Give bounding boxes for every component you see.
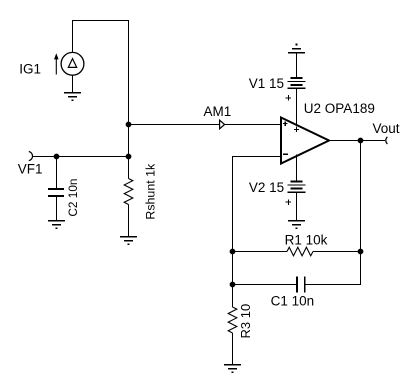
op-amp U2 V+ pin marker: [294, 127, 299, 132]
capacitor C2: [48, 189, 64, 196]
wire op-amp output: [329, 140, 385, 142]
svg-text:Vout: Vout: [373, 121, 400, 136]
wire feedback left vertical: [232, 156, 234, 307]
ground below C2: [48, 221, 65, 230]
terminal VF1: [29, 152, 33, 161]
wire main vertical x=128 from top wire down to Rshunt: [128, 20, 130, 179]
wire C2 bottom lead: [56, 197, 58, 221]
node junction VF1/C2: [54, 154, 60, 160]
wire V1 to op-amp V+ pin: [296, 88, 298, 126]
wire IG1 bottom lead to ground: [72, 75, 74, 92]
op-amp U2 - input marker: [283, 153, 288, 155]
op-amp U2 triangle: [281, 118, 329, 164]
ground below R3: [224, 365, 241, 374]
wire Rshunt bottom lead: [128, 205, 130, 237]
wire AM1 from main vertical to op-amp + input: [129, 124, 282, 126]
wire R1 left lead: [233, 251, 288, 253]
svg-text:C2 10n: C2 10n: [66, 179, 80, 217]
svg-text:R3 10: R3 10: [238, 304, 253, 339]
wire op-amp V- pin to V2: [296, 155, 298, 182]
svg-text:IG1: IG1: [19, 62, 41, 77]
node junction output/feedback: [358, 138, 364, 144]
svg-text:V2 15: V2 15: [249, 180, 284, 195]
wire V2 to ground: [296, 192, 298, 220]
ground below Rshunt: [120, 237, 137, 246]
node junction AM1 branch: [126, 122, 132, 128]
node junction R1 left: [230, 249, 236, 255]
wire C1 left lead: [233, 284, 297, 286]
battery V1 plus marker: [286, 95, 292, 101]
wire IG1 top lead: [72, 20, 74, 53]
resistor R3 10 (vertical zigzag): [228, 307, 237, 333]
battery V1: [288, 78, 306, 88]
resistor Rshunt 1k (vertical zigzag): [124, 179, 133, 205]
ground below IG1: [64, 93, 81, 102]
wire C1 right lead: [306, 284, 362, 286]
node junction R1 right: [358, 249, 364, 255]
node junction VF1/Rshunt: [126, 154, 132, 160]
op-amp U2 + input marker: [283, 121, 288, 126]
wire R1 right lead: [313, 251, 361, 253]
ammeter AM1 arrow: [220, 120, 225, 129]
wire inverted ground to V1: [296, 53, 298, 78]
wire top horizontal from IG1 to main vertical: [72, 20, 129, 22]
wire VF1 to main vertical: [33, 156, 129, 158]
svg-text:C1 10n: C1 10n: [271, 294, 315, 309]
battery V2 plus marker: [286, 199, 292, 205]
svg-text:V1 15: V1 15: [249, 76, 284, 91]
node junction C1/R3: [230, 282, 236, 288]
resistor R1 10k (horizontal zigzag): [287, 247, 313, 256]
battery V2: [288, 181, 306, 192]
svg-text:Rshunt 1k: Rshunt 1k: [144, 163, 158, 220]
capacitor C1: [297, 277, 305, 293]
wire C2 top lead: [56, 157, 58, 189]
terminal Vout: [386, 137, 388, 144]
svg-text:AM1: AM1: [204, 104, 232, 119]
current source IG1: [54, 52, 84, 75]
wire R3 bottom lead: [232, 333, 234, 365]
wire inverting input horizontal: [233, 156, 282, 158]
wire feedback right vertical: [360, 141, 362, 286]
ground below V2: [288, 221, 305, 230]
inverted ground above V1: [288, 44, 305, 53]
svg-text:R1 10k: R1 10k: [285, 232, 328, 247]
svg-text:VF1: VF1: [18, 161, 43, 176]
svg-text:U2 OPA189: U2 OPA189: [304, 101, 375, 116]
